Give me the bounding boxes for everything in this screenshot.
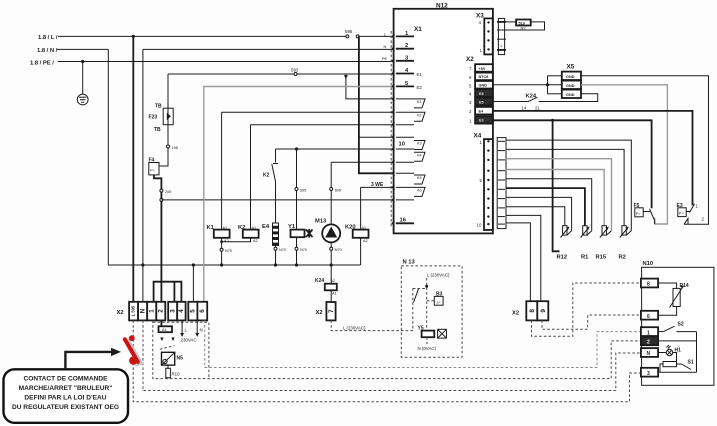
X5 terminal GND 1 — [562, 72, 581, 80]
wire terminal3 dashed drop — [153, 320, 641, 378]
svg-text:A2: A2 — [331, 279, 336, 283]
igniter N5 — [162, 352, 175, 365]
wire X5 tie — [547, 76, 549, 94]
node 595 circle Y1 — [295, 188, 298, 191]
wire GND1 to P3 term2 — [581, 76, 709, 225]
junction GND X5 — [546, 83, 549, 86]
svg-text:2: 2 — [405, 43, 408, 49]
switch S1 — [677, 364, 692, 370]
node 198 circle — [167, 145, 170, 148]
X4 mating ticks — [498, 141, 505, 224]
svg-text:K4: K4 — [417, 154, 422, 158]
contact command red blade shadow — [129, 341, 142, 363]
svg-text:N70: N70 — [279, 248, 286, 252]
svg-text:10: 10 — [477, 223, 482, 228]
svg-text:A2: A2 — [224, 239, 229, 243]
svg-text:14: 14 — [522, 106, 527, 111]
svg-text:1: 1 — [148, 309, 155, 313]
svg-text:N70: N70 — [300, 248, 307, 252]
svg-text:230VAC: 230VAC — [181, 338, 197, 343]
svg-text:PE: PE — [382, 57, 388, 61]
svg-text:X1: X1 — [414, 26, 422, 33]
wire terminal5 L arrow — [180, 320, 184, 337]
wire GND2 gray to F5 — [581, 85, 667, 224]
svg-text:8: 8 — [529, 309, 536, 313]
terminal X2 6 — [197, 302, 207, 321]
contact N13 relay — [413, 289, 427, 303]
wire B3 stub — [427, 300, 435, 302]
callout box — [4, 369, 129, 423]
sensor R12 — [561, 226, 572, 238]
node N70 circle E4 — [274, 247, 277, 250]
X3 pin dots — [487, 21, 489, 50]
junction M13 bus — [330, 263, 333, 266]
junction arrow E1 branch — [344, 75, 348, 79]
svg-text:GND: GND — [566, 75, 575, 79]
X1 pin entry ticks — [392, 34, 395, 225]
svg-text:K2: K2 — [263, 173, 270, 179]
svg-text:7: 7 — [328, 309, 335, 313]
X2 terminal GND pin 5 — [475, 81, 493, 89]
X1 pin row 2 — [396, 48, 414, 50]
wire E1 branch to row6 — [346, 74, 394, 99]
terminal X2 8 9 — [526, 301, 537, 320]
wire K1 K2 coil bottoms merge — [221, 238, 223, 265]
X1 pin row 9 — [396, 136, 414, 138]
svg-text:DEFINI PAR LA LOI D'EAU: DEFINI PAR LA LOI D'EAU — [24, 394, 106, 401]
svg-text:L (230VAC): L (230VAC) — [427, 273, 450, 278]
node 200 circle — [160, 189, 163, 192]
wire N13 L feed — [426, 278, 428, 331]
wire terminal2 dashed drop — [143, 320, 641, 390]
svg-text:K1: K1 — [207, 225, 215, 231]
svg-text:A1: A1 — [362, 226, 367, 230]
relay coil K24 — [315, 278, 337, 296]
connector X3 body — [484, 18, 492, 54]
fuse F23 — [163, 108, 173, 125]
svg-text:Y1: Y1 — [288, 224, 296, 230]
wire PE supply — [58, 61, 393, 63]
svg-text:X5: X5 — [567, 64, 575, 71]
svg-text:R12: R12 — [557, 255, 568, 261]
junction bus to terminal5 — [192, 263, 195, 266]
wire GND to X5 — [493, 84, 562, 86]
controller N12 box — [394, 9, 493, 234]
svg-text:1.8 / N /: 1.8 / N / — [37, 48, 58, 54]
contact command red blade — [125, 339, 138, 362]
svg-text:NTC8: NTC8 — [479, 75, 489, 79]
junction Y1 net595 — [295, 147, 298, 150]
svg-text:X4: X4 — [474, 133, 482, 140]
arrow N5 left — [160, 338, 163, 342]
wire R14 bottom — [658, 307, 677, 316]
wire K2 coil riser — [251, 124, 394, 126]
svg-text:198: 198 — [172, 146, 178, 150]
pump M13 — [322, 224, 340, 242]
svg-text:A1: A1 — [252, 226, 257, 230]
sensor R1 — [581, 226, 592, 238]
relay contact flag K2 — [414, 112, 425, 121]
dashed enclosure N5 — [153, 322, 209, 378]
wire L to X1 pin1 — [359, 35, 393, 37]
svg-text:X2: X2 — [316, 310, 323, 316]
valve coil Y1 — [288, 224, 305, 237]
svg-text:1<: 1< — [436, 300, 441, 304]
wire E2 gray net — [204, 87, 394, 302]
X2 terminal E3 pin 1 — [475, 116, 493, 124]
arrow N5 right — [171, 338, 174, 342]
wire X4 pin8 — [506, 207, 565, 226]
X1 pin row 14 — [396, 199, 414, 201]
red dot upper — [129, 335, 135, 341]
X2 terminal +5V pin 7 — [475, 64, 493, 72]
wire X4 pin2 — [506, 149, 624, 225]
X1 pin row 15 — [396, 222, 414, 224]
terminal X2 2 — [156, 302, 165, 321]
svg-text:X2: X2 — [466, 56, 474, 63]
X1 pin row 10 — [396, 148, 414, 150]
svg-text:595: 595 — [345, 29, 353, 34]
svg-text:R10: R10 — [172, 372, 181, 377]
X2 terminal NTC8 pin 6 — [475, 73, 493, 81]
svg-text:B3: B3 — [436, 292, 443, 298]
X4 pin dots — [487, 140, 489, 225]
svg-text:GND: GND — [566, 93, 575, 97]
switch S2 — [658, 326, 696, 331]
svg-text:10: 10 — [399, 142, 405, 148]
svg-text:1.8 / L /: 1.8 / L / — [38, 35, 58, 41]
wire X2:8 dashed to N10 — [532, 283, 641, 336]
svg-text:E1: E1 — [417, 72, 423, 77]
svg-text:N10: N10 — [643, 261, 654, 267]
svg-text:2: 2 — [157, 309, 164, 313]
svg-text:E2: E2 — [417, 85, 423, 90]
svg-text:GND: GND — [566, 84, 575, 88]
terminal X2 L 595 — [129, 302, 138, 321]
pressure switch E3 box — [678, 208, 686, 217]
svg-text:K2: K2 — [417, 113, 422, 117]
svg-text:F23: F23 — [149, 115, 158, 121]
wire X4 pin3 — [506, 159, 612, 231]
wire E3 to F5 — [493, 120, 652, 208]
terminal X2 5 — [188, 302, 197, 321]
heater E4 — [273, 223, 279, 245]
wire terminal8 gray dashed run — [205, 320, 641, 367]
svg-text:E8: E8 — [479, 92, 484, 96]
junction E3 branch — [551, 119, 554, 122]
svg-text:GND: GND — [479, 84, 488, 88]
contact K2 — [272, 164, 278, 182]
wire P3 bottom — [684, 219, 688, 225]
svg-text:N: N — [647, 351, 651, 357]
wire M13 bottom — [330, 242, 332, 283]
svg-text:M13: M13 — [315, 219, 327, 225]
svg-text:200: 200 — [165, 190, 171, 194]
svg-text:A1: A1 — [223, 226, 228, 230]
svg-text:8: 8 — [647, 282, 650, 288]
X1 pin row 12 — [396, 172, 414, 174]
terminal X2:7 — [326, 302, 335, 320]
relay coil K1 — [207, 225, 230, 243]
X2 terminal E4 pin 2 — [475, 107, 493, 115]
svg-text:R1: R1 — [581, 255, 589, 261]
svg-text:5: 5 — [189, 309, 196, 313]
X1 pin row 8 — [396, 124, 414, 126]
node junction circle net200 — [160, 198, 163, 201]
svg-text:E5: E5 — [479, 100, 484, 104]
svg-text:21: 21 — [535, 106, 540, 111]
svg-text:S2: S2 — [678, 322, 684, 328]
junction N13 — [425, 285, 428, 288]
svg-text:F4: F4 — [149, 158, 155, 164]
wire E4 to P3 term1 — [493, 111, 693, 205]
resistor H1 series — [660, 353, 677, 373]
svg-text:3: 3 — [169, 309, 176, 313]
wire Y1 riser — [296, 149, 298, 230]
svg-text:L 595: L 595 — [131, 305, 136, 316]
svg-text:S1: S1 — [688, 360, 694, 366]
svg-text:595: 595 — [300, 188, 306, 192]
svg-text:N: N — [139, 308, 146, 313]
potentiometer R14 — [670, 285, 684, 307]
X1 pin row 13 — [396, 186, 414, 188]
N10 terminal 3 — [641, 368, 658, 377]
wire E1 net from F23 — [168, 73, 393, 75]
junction Y1 bus — [295, 263, 298, 266]
svg-text:A2: A2 — [363, 239, 368, 243]
wire earth drop — [82, 62, 84, 95]
node 605 circle M13 — [330, 188, 333, 191]
svg-text:9: 9 — [540, 309, 547, 313]
svg-text:P>: P> — [679, 212, 685, 216]
connector X4 body — [484, 139, 493, 230]
N10 terminal 1 — [641, 327, 658, 336]
relay contact flag K4 — [414, 152, 425, 161]
resistor 519 jumper — [516, 20, 531, 26]
junction E4 bus — [274, 263, 277, 266]
svg-text:2: 2 — [647, 340, 650, 346]
svg-text:N5: N5 — [177, 356, 184, 362]
X1 pin row 1 — [396, 35, 414, 37]
module N13 dashed box — [401, 266, 462, 357]
svg-text:Y5: Y5 — [418, 326, 424, 332]
valve coil Y5 — [418, 326, 435, 338]
node 593 circle — [294, 73, 297, 76]
thermostat B3 — [434, 296, 443, 305]
wire K20 bottom — [360, 238, 362, 265]
svg-text:K3: K3 — [417, 142, 422, 146]
X1 pin row 4 — [396, 73, 414, 75]
wire N10 terminal2 stub — [658, 340, 696, 342]
relay contact flag K6 — [414, 187, 425, 196]
svg-text:K24: K24 — [315, 278, 324, 284]
terminal X2 3 — [168, 302, 177, 321]
junction K1 bus — [220, 263, 223, 266]
wire X4 pin4 — [506, 170, 604, 226]
terminal X2 1 — [147, 302, 156, 321]
wire X4 pin6 — [506, 188, 585, 226]
wire E5 to K24 contact — [493, 101, 528, 103]
svg-text:1.8 / PE /: 1.8 / PE / — [30, 61, 54, 67]
wire K2 contact drop — [275, 149, 277, 163]
wire Y1 bottom — [296, 237, 298, 265]
sensor R15 — [600, 226, 612, 238]
svg-text:K24: K24 — [526, 94, 537, 100]
relay coil K20 — [345, 225, 369, 244]
wire L supply — [58, 35, 347, 37]
svg-text:+5V: +5V — [479, 67, 486, 71]
wire terminal1 dashed drop — [133, 320, 641, 401]
wire K1 coil riser — [222, 111, 394, 113]
wire M13 riser row11 — [331, 161, 393, 163]
contact F5 — [643, 209, 655, 224]
terminal A1 N5 — [159, 326, 173, 332]
svg-text:A2: A2 — [253, 239, 258, 243]
controller N10 box — [642, 267, 714, 385]
svg-text:L (230VAC): L (230VAC) — [343, 326, 366, 331]
relay contact flag K1 — [414, 99, 425, 108]
svg-text:N70: N70 — [335, 248, 342, 252]
svg-text:DU REGULATEUR EXISTANT OEG: DU REGULATEUR EXISTANT OEG — [12, 404, 119, 411]
svg-text:CONTACT DE COMMANDE: CONTACT DE COMMANDE — [23, 376, 108, 383]
wire GND3 loop to K24 — [539, 94, 598, 102]
svg-text:N: N — [200, 328, 203, 333]
wire bus drop terminal5 — [192, 265, 194, 302]
wire F4 down — [154, 175, 161, 302]
wire N supply — [57, 48, 108, 50]
wire F23 drop — [167, 74, 169, 108]
N10 terminal 6 — [641, 311, 658, 320]
red dot lower — [129, 357, 137, 365]
N10 terminal 2 — [641, 337, 658, 346]
svg-text:X2: X2 — [512, 311, 519, 317]
junction PE earth — [81, 60, 84, 63]
terminal X2 N — [138, 302, 147, 321]
X3 mating pin ticks — [497, 22, 506, 50]
wire N drop to N bus — [108, 49, 143, 265]
X1 pin row 3 — [396, 60, 414, 62]
wire X4 pin5 — [506, 179, 592, 231]
wire E3 branch down — [553, 120, 560, 251]
valve symbol Y5 — [438, 329, 447, 338]
wire X4 pin9 — [506, 215, 541, 301]
svg-text:F>: F> — [150, 169, 155, 173]
svg-text:TB: TB — [155, 104, 162, 110]
wire L drop to terminal L — [132, 36, 134, 301]
wire Y5 bottom — [426, 337, 428, 344]
svg-text:MARCHE/ARRET "BRULEUR": MARCHE/ARRET "BRULEUR" — [19, 385, 113, 392]
wire L thick drop — [359, 36, 394, 173]
svg-text:A1: A1 — [162, 328, 167, 332]
svg-text:N: N — [384, 45, 387, 49]
svg-text:1: 1 — [500, 44, 502, 48]
N10 terminal 8 — [641, 279, 658, 288]
X1 pin row 5 — [396, 85, 414, 87]
connector X3 mating half — [498, 18, 504, 54]
svg-text:16: 16 — [400, 218, 407, 224]
svg-text:3: 3 — [647, 371, 650, 377]
wire N10 terminal3 stub — [658, 371, 696, 373]
wire X4 pin10 — [506, 223, 530, 301]
wire X4 pin1 — [506, 140, 631, 231]
X2 terminal E8 pin 4 — [475, 89, 493, 97]
node N70 circle K1 — [220, 248, 223, 251]
svg-text:593: 593 — [291, 68, 299, 73]
X1 pin row 6 — [396, 98, 414, 100]
wire E4 bottom — [275, 245, 277, 265]
valve symbol Y1 — [306, 229, 313, 238]
contact N5 — [160, 346, 175, 350]
ground earth symbol — [77, 94, 88, 105]
junction N bus terminal N — [141, 263, 144, 266]
svg-text:K6: K6 — [417, 189, 422, 193]
svg-text:E4: E4 — [262, 224, 270, 230]
wire X2:7 dashed to N13 — [331, 289, 413, 331]
svg-text:K20: K20 — [345, 225, 356, 231]
wire terminal4 to N5 — [160, 320, 162, 326]
fuse F4 — [149, 163, 159, 175]
svg-text:K2: K2 — [238, 225, 245, 231]
contact P3 — [686, 204, 694, 213]
svg-text:6: 6 — [647, 314, 650, 320]
wire X2:9 dashed to N10 — [542, 315, 641, 329]
wire net200 to row14 — [161, 199, 393, 201]
wire X4 pin7 — [506, 197, 572, 230]
svg-text:P>: P> — [636, 212, 642, 216]
relay contact flag K5 — [414, 175, 425, 184]
svg-text:X3: X3 — [476, 13, 484, 20]
svg-text:N70: N70 — [225, 249, 232, 253]
X2 terminal E5 pin 3 — [475, 98, 493, 106]
X1 pin row 7 — [396, 111, 414, 113]
wire E4 element drop — [275, 182, 277, 224]
wire X3 loop — [505, 21, 516, 23]
pressure switch F5 box — [635, 208, 643, 217]
relay coil K2 — [238, 225, 259, 243]
svg-text:6: 6 — [199, 309, 206, 313]
svg-text:N (0VAC): N (0VAC) — [418, 346, 437, 351]
X5 terminal GND 3 — [562, 90, 581, 98]
svg-text:605: 605 — [335, 188, 341, 192]
svg-text:K1: K1 — [417, 100, 422, 104]
callout arrow — [65, 348, 121, 369]
connector X4 mating half — [497, 138, 506, 229]
node N70 circle M13 — [330, 247, 333, 250]
wire R14 top — [658, 283, 677, 288]
wire F23 to F4 — [159, 125, 168, 166]
svg-text:1: 1 — [647, 330, 650, 336]
wire H-bar terminals — [154, 282, 182, 302]
svg-text:N12: N12 — [436, 3, 448, 10]
wire terminal6 N arrow — [195, 320, 199, 337]
svg-text:N 13: N 13 — [403, 260, 416, 266]
wire K20 riser row13 — [361, 186, 394, 188]
N10 terminal N — [641, 348, 658, 357]
lamp H1 — [658, 345, 673, 356]
relay contact flag K3 — [414, 141, 425, 150]
svg-text:519: 519 — [519, 22, 525, 26]
junction L drop — [132, 35, 135, 38]
resistor R10 — [166, 365, 171, 378]
terminal X2 4 — [177, 302, 185, 321]
svg-text:K5: K5 — [417, 176, 422, 180]
wire L branch row9 — [359, 136, 394, 138]
node N70 circle Y1 — [295, 247, 298, 250]
sensor R2 — [620, 226, 632, 238]
wire N riser to X1 pin2 — [143, 48, 394, 50]
svg-text:L: L — [384, 33, 386, 37]
svg-text:A1: A1 — [332, 292, 337, 296]
